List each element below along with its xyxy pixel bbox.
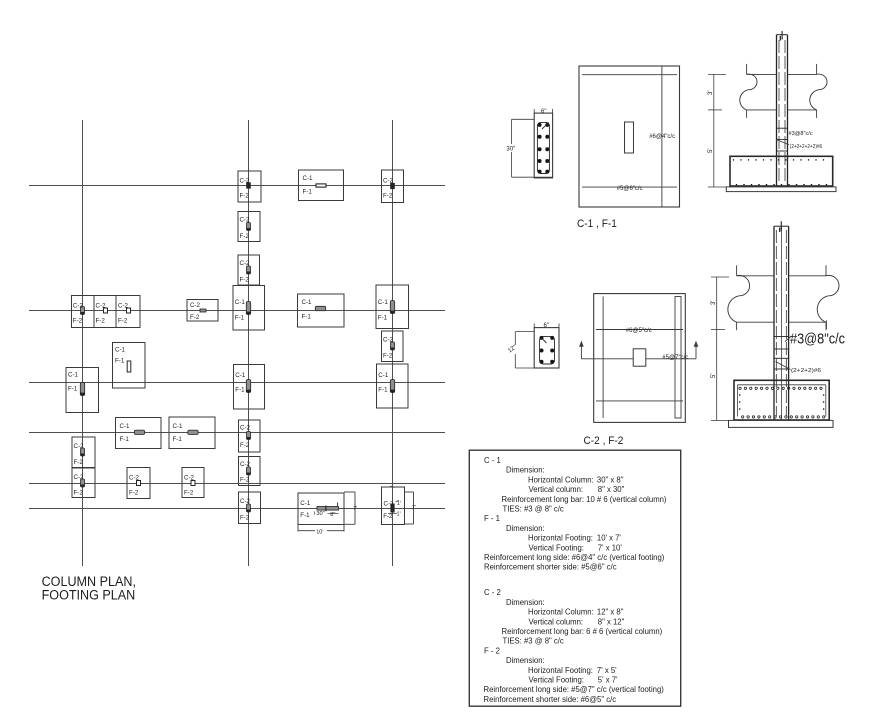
svg-text:C-1: C-1 (120, 423, 131, 430)
svg-text:F-1: F-1 (378, 315, 388, 322)
svg-text:#5@6"c/c: #5@6"c/c (617, 186, 643, 192)
svg-text:Reinforcement shorter side: #6: Reinforcement shorter side: #6@5" c/c (484, 695, 617, 704)
plan horizontal grid lines (29, 186, 445, 509)
svg-text:F-2: F-2 (240, 442, 250, 449)
svg-text:F-1: F-1 (300, 512, 310, 519)
svg-text:8" x 12": 8" x 12" (598, 617, 625, 626)
svg-text:F - 2: F - 2 (484, 646, 500, 655)
svg-text:C-2: C-2 (240, 260, 251, 267)
svg-text:Dimension:: Dimension: (506, 656, 545, 665)
footing F-2 box row2 second (94, 296, 116, 328)
svg-text:10': 10' (316, 530, 323, 536)
footing F-2 box stack A-b (72, 468, 95, 498)
svg-text:7': 7' (353, 506, 357, 512)
footing F-2 box at grid B/4 (239, 420, 261, 452)
svg-text:F-1: F-1 (173, 436, 183, 443)
rebar line left F-2 (602, 296, 604, 418)
svg-text:1': 1' (397, 501, 401, 507)
svg-text:Reinforcement long bar: 6 # 6: Reinforcement long bar: 6 # 6 (vertical … (502, 627, 663, 636)
svg-text:F-2: F-2 (129, 490, 139, 497)
svg-text:C-2: C-2 (240, 217, 251, 224)
section C-1/F-1 elevation column (777, 31, 788, 187)
svg-text:Vertical column:: Vertical column: (529, 617, 584, 626)
svg-text:F - 1: F - 1 (484, 514, 500, 523)
svg-text:F-2: F-2 (240, 515, 250, 522)
footing F-1 dimensioned box bottom row (298, 492, 357, 536)
svg-text:Horizontal Footing:: Horizontal Footing: (528, 533, 593, 542)
footing F-1 box mid row 1 (299, 170, 344, 201)
svg-text:F-1: F-1 (235, 315, 245, 322)
footing F-2 plan detail (594, 294, 686, 423)
svg-text:F-2: F-2 (383, 353, 393, 360)
svg-text:Reinforcement long side: #5@7": Reinforcement long side: #5@7" c/c (vert… (484, 685, 665, 694)
rebar line top F-1 (582, 74, 677, 76)
svg-text:C-2: C-2 (240, 425, 251, 432)
svg-text:#3@8"c/c: #3@8"c/c (790, 331, 845, 347)
svg-text:F-2: F-2 (184, 490, 194, 497)
svg-text:7' x 10': 7' x 10' (598, 543, 622, 552)
footing F-1 box at grid C/3 (377, 364, 409, 408)
footing F-1 box at grid B/3 (234, 365, 265, 410)
svg-text:Reinforcement shorter side: #5: Reinforcement shorter side: #5@6" c/c (484, 562, 617, 571)
svg-text:10' x 7': 10' x 7' (597, 533, 621, 542)
footing F-1 plan detail (579, 66, 680, 207)
column rect in F-1 plan (625, 122, 634, 153)
notes text (484, 456, 667, 704)
svg-text:C-1: C-1 (115, 347, 126, 354)
svg-text:C-2: C-2 (73, 303, 84, 310)
footing F-1 box mid row 2 (298, 294, 345, 327)
svg-text:30" x 8": 30" x 8" (597, 475, 624, 484)
svg-text:C-1: C-1 (302, 299, 313, 306)
svg-text:6": 6" (544, 323, 549, 329)
svg-text:Dimension:: Dimension: (506, 524, 545, 533)
svg-text:F-2: F-2 (240, 277, 250, 284)
base plate section 2 (729, 420, 834, 427)
svg-text:F-2: F-2 (190, 314, 200, 321)
svg-text:F-2: F-2 (118, 318, 128, 325)
svg-text:C-1: C-1 (303, 175, 314, 182)
footing F-2 box stack A-a (72, 437, 95, 468)
svg-text:1': 1' (397, 512, 401, 518)
svg-text:C-2 , F-2: C-2 , F-2 (584, 435, 624, 447)
svg-text:F-2: F-2 (383, 513, 393, 520)
svg-text:3': 3' (711, 301, 717, 305)
footing F-2 box row2 free (187, 300, 218, 322)
svg-text:C-1: C-1 (68, 372, 79, 379)
ties on column section 1 (777, 128, 788, 151)
svg-text:7' x 5': 7' x 5' (597, 665, 617, 674)
svg-text:C-1: C-1 (378, 372, 389, 379)
svg-text:F-1: F-1 (115, 358, 125, 365)
svg-text:Vertical column:: Vertical column: (529, 485, 584, 494)
rebar line lower F-2 (596, 400, 683, 402)
svg-text:FOOTING PLAN: FOOTING PLAN (42, 587, 136, 603)
dimension 6 inch for C-1 section (534, 109, 552, 115)
footing F-2 section (734, 380, 829, 420)
dimension 6 inch for C-2 section (534, 323, 559, 329)
svg-text:C-1: C-1 (173, 423, 184, 430)
svg-text:Horizontal Column:: Horizontal Column: (528, 475, 594, 484)
dimension left section 2 (711, 277, 729, 421)
footing F-2 box row2 third (116, 296, 140, 328)
svg-text:F-1: F-1 (235, 387, 245, 394)
footing F-2 dimensioned box bottom row (382, 486, 416, 525)
footing F-1 box at grid B/2 (233, 286, 265, 331)
svg-text:F-2: F-2 (74, 490, 84, 497)
footing F-1 box at grid A/3 (66, 368, 99, 413)
column rect in F-2 plan (633, 349, 646, 366)
svg-text:C-2: C-2 (129, 475, 140, 482)
footing F-2 box stack B-b (238, 255, 260, 285)
svg-text:5' x 7': 5' x 7' (598, 675, 618, 684)
svg-text:C-2: C-2 (74, 474, 85, 481)
svg-text:Dimension:: Dimension: (506, 465, 545, 474)
svg-text:C-2: C-2 (240, 498, 251, 505)
svg-text:C-2: C-2 (384, 501, 395, 508)
svg-text:7': 7' (412, 505, 416, 511)
title COLUMN PLAN, FOOTING PLAN (42, 573, 136, 602)
svg-text:(2+2+2)#6: (2+2+2)#6 (791, 368, 821, 374)
svg-text:TIES: #3 @ 8" c/c: TIES: #3 @ 8" c/c (503, 636, 564, 645)
svg-text:F-2: F-2 (240, 477, 250, 484)
svg-text:TIES: #3 @ 8" c/c: TIES: #3 @ 8" c/c (503, 504, 564, 513)
svg-text:#3@8"c/c: #3@8"c/c (789, 131, 813, 137)
svg-text:C-2: C-2 (383, 178, 394, 185)
svg-text:F-2: F-2 (73, 318, 83, 325)
svg-text:Dimension:: Dimension: (506, 598, 545, 607)
footing F-1 box row4 first (116, 418, 162, 449)
svg-text:F-2: F-2 (383, 193, 393, 200)
svg-text:C - 1: C - 1 (484, 456, 501, 465)
break wave section 2 (728, 265, 839, 330)
svg-text:#6@5"c/c: #6@5"c/c (626, 328, 652, 334)
footing F-1 box row4 second (169, 417, 215, 449)
footing F-2 box at grid A/2 (72, 296, 95, 328)
rebar line bottom F-1 #5@6 c/c (582, 186, 677, 188)
svg-text:30": 30" (506, 147, 515, 153)
plan vertical grid lines (83, 120, 393, 566)
notes box (469, 450, 680, 706)
dimension 30 inch for C-1 section (506, 119, 553, 177)
svg-text:C-2: C-2 (240, 461, 251, 468)
column C-2 cross-section (534, 328, 559, 368)
break wave section 1 (740, 64, 827, 118)
center line with arrows F-2 (579, 341, 698, 359)
svg-text:C-1: C-1 (300, 500, 311, 507)
svg-text:F-2: F-2 (240, 233, 250, 240)
footing F-2 box at grid B/1 (238, 171, 261, 202)
svg-text:6": 6" (541, 109, 546, 115)
label (2+2+2)#6 section 2 (776, 362, 822, 375)
svg-text:#6@4"c/c: #6@4"c/c (649, 134, 675, 140)
svg-text:30": 30" (316, 511, 324, 517)
svg-text:C-2: C-2 (74, 443, 85, 450)
dimension left section 1 (708, 74, 726, 187)
svg-text:C-2: C-2 (240, 178, 251, 185)
svg-text:Vertical Footing:: Vertical Footing: (529, 675, 584, 684)
svg-text:F-2: F-2 (96, 318, 106, 325)
footing F-2 box at grid B/6 (239, 492, 261, 524)
svg-text:Horizontal Footing:: Horizontal Footing: (528, 665, 593, 674)
svg-text:C-2: C-2 (96, 303, 107, 310)
footing F-2 box row5 free 2 (182, 468, 204, 498)
svg-text:F-1: F-1 (378, 387, 388, 394)
svg-text:Reinforcement long side: #6@4": Reinforcement long side: #6@4" c/c (vert… (484, 553, 665, 562)
svg-text:C - 2: C - 2 (484, 588, 501, 597)
svg-text:C-2: C-2 (383, 337, 394, 344)
rebar line #6@5"c/c F-2 (596, 329, 683, 331)
svg-text:Reinforcement long bar: 10 # 6: Reinforcement long bar: 10 # 6 (vertical… (502, 494, 667, 503)
svg-text:8": 8" (330, 512, 335, 518)
rebar line right F-1 #6@4 c/c (661, 66, 663, 207)
svg-text:F-1: F-1 (303, 189, 313, 196)
svg-text:3': 3' (708, 91, 714, 95)
dimension 12 inch for C-2 section (507, 332, 534, 368)
svg-text:C-2: C-2 (118, 303, 129, 310)
svg-text:5': 5' (711, 374, 717, 378)
svg-text:(2+2+2+2+2)#6: (2+2+2+2+2)#6 (790, 144, 822, 150)
svg-text:5': 5' (708, 149, 714, 153)
svg-text:F-1: F-1 (120, 436, 130, 443)
footing F-2 box stack C-a (382, 331, 404, 362)
svg-text:Vertical Footing:: Vertical Footing: (529, 543, 584, 552)
footing F-1 box at grid C/2 (376, 285, 409, 329)
section C-2/F-2 elevation column (774, 221, 789, 420)
label (2+2+2+2+2)#6 section 1 (776, 139, 822, 150)
svg-text:12" x 8": 12" x 8" (597, 607, 624, 616)
svg-text:C-2: C-2 (184, 475, 195, 482)
svg-text:F-2: F-2 (240, 193, 250, 200)
svg-text:C-1: C-1 (235, 299, 246, 306)
label #3@8"c/c large (785, 320, 845, 346)
svg-text:C-1: C-1 (235, 372, 246, 379)
footing F-2 box row5 free 1 (127, 468, 150, 499)
svg-text:F-2: F-2 (74, 459, 84, 466)
column C-1 cross-section (534, 113, 552, 178)
footing F-1 section (730, 156, 833, 186)
ties on column section 2 (774, 337, 789, 370)
rebar bar right F-2 (675, 297, 681, 419)
svg-text:C-1: C-1 (378, 299, 389, 306)
base plate section 1 (726, 187, 836, 192)
label #3@8"c/c small section 1 (789, 131, 813, 137)
footing F-2 box at grid C/1 (382, 170, 404, 203)
svg-text:F-1: F-1 (302, 314, 312, 321)
svg-text:C-2: C-2 (190, 302, 201, 309)
footing F-2 box stack B-c (239, 457, 261, 486)
svg-text:8" x 30": 8" x 30" (598, 485, 625, 494)
footing F-2 box stack B-a (238, 212, 260, 242)
svg-text:F-1: F-1 (68, 386, 78, 393)
svg-text:#5@7"c/c: #5@7"c/c (662, 355, 688, 361)
svg-text:C-1 , F-1: C-1 , F-1 (577, 218, 617, 230)
svg-text:Horizontal Column:: Horizontal Column: (528, 607, 594, 616)
footing F-1 box free mid-left (113, 343, 146, 389)
